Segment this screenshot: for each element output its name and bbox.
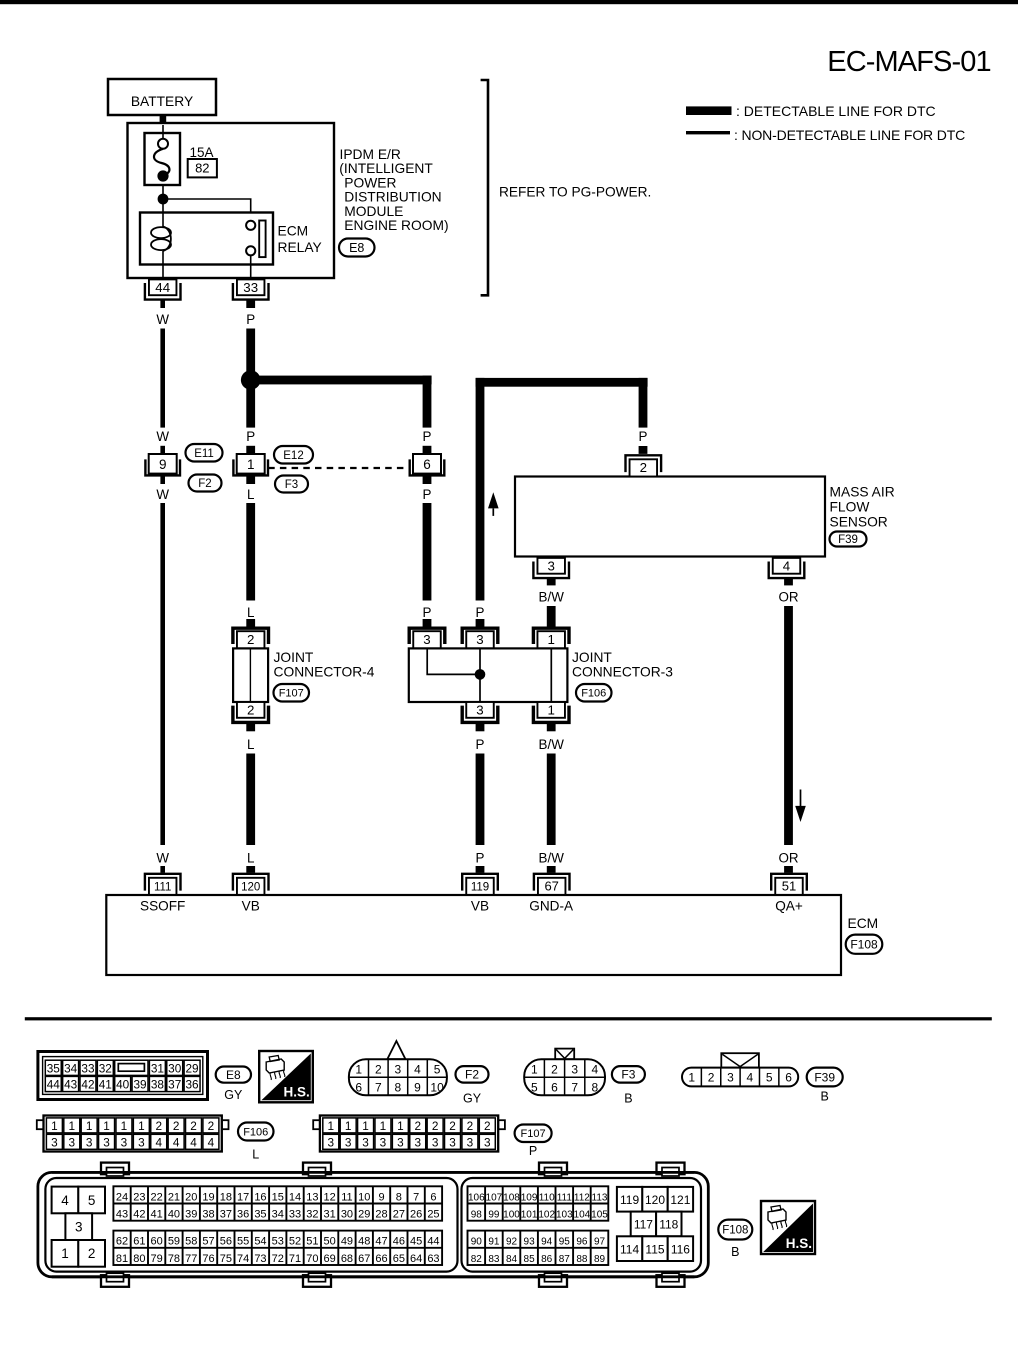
svg-text:33: 33: [81, 1061, 95, 1075]
svg-text:25: 25: [427, 1209, 439, 1221]
JC3 internal wire right: [550, 648, 552, 702]
svg-text:L: L: [247, 487, 254, 502]
svg-text:F3: F3: [621, 1068, 635, 1082]
arrow down beside OR wire: [795, 790, 806, 823]
svg-text:2: 2: [375, 1062, 382, 1076]
svg-text:106: 106: [468, 1192, 485, 1203]
svg-text:42: 42: [81, 1078, 94, 1092]
svg-text:32: 32: [306, 1209, 318, 1221]
svg-text:W: W: [156, 429, 169, 444]
connector ref F39 oval main: [830, 532, 867, 547]
svg-text:P: P: [423, 429, 432, 444]
label P under F107: [529, 1144, 537, 1158]
wire P junction to terminal 1: [246, 380, 255, 428]
svg-text:1: 1: [247, 457, 255, 472]
svg-text:53: 53: [272, 1236, 284, 1248]
svg-text:2: 2: [414, 1119, 421, 1133]
svg-text:112: 112: [574, 1192, 590, 1203]
relay coil: [151, 214, 171, 265]
svg-text:26: 26: [410, 1209, 422, 1221]
svg-text:3: 3: [75, 1220, 83, 1235]
connector ref F108 oval bottom: [718, 1220, 752, 1240]
svg-text:47: 47: [375, 1236, 387, 1248]
svg-text:3: 3: [51, 1136, 58, 1150]
svg-text:SSOFF: SSOFF: [140, 899, 185, 914]
junction node in IPDM: [158, 194, 169, 205]
svg-text:15: 15: [272, 1191, 284, 1203]
label GY under F2: [463, 1092, 482, 1106]
svg-text:2: 2: [173, 1119, 180, 1133]
label W below 44: [156, 312, 169, 327]
svg-text:4: 4: [746, 1071, 753, 1085]
svg-text:58: 58: [185, 1236, 197, 1248]
svg-text:82: 82: [195, 161, 209, 176]
label P below 33: [246, 312, 255, 327]
label W above ECM 111: [156, 851, 169, 866]
svg-text:5: 5: [88, 1193, 96, 1208]
stub above ECM 67: [547, 866, 556, 873]
svg-text:101: 101: [521, 1210, 538, 1221]
svg-text:F2: F2: [198, 478, 211, 490]
svg-text:: NON-DETECTABLE LINE FOR DTC: : NON-DETECTABLE LINE FOR DTC: [734, 127, 965, 143]
svg-text:VB: VB: [471, 899, 489, 914]
svg-text:MASS AIR: MASS AIR: [830, 485, 895, 500]
svg-text:104: 104: [574, 1210, 591, 1221]
svg-text:66: 66: [375, 1253, 387, 1265]
svg-text:1: 1: [86, 1119, 93, 1133]
svg-text:120: 120: [645, 1193, 665, 1207]
stub above terminal 1: [246, 446, 255, 454]
ECM terminal 119: [462, 874, 498, 895]
svg-text:3: 3: [397, 1136, 404, 1150]
svg-text:E8: E8: [349, 241, 364, 255]
fuse 15A symbol: [154, 139, 169, 182]
svg-text:65: 65: [393, 1253, 405, 1265]
svg-text:1: 1: [328, 1119, 335, 1133]
svg-text:5: 5: [531, 1080, 538, 1094]
svg-text:15A: 15A: [190, 145, 214, 160]
joint connector-3 box F106: [409, 648, 568, 702]
svg-text:23: 23: [133, 1191, 145, 1203]
ECM terminal 67: [534, 874, 570, 895]
svg-text:5: 5: [434, 1062, 441, 1076]
svg-text:F108: F108: [722, 1225, 748, 1237]
stub below 44: [160, 300, 165, 308]
svg-text:3: 3: [362, 1136, 369, 1150]
svg-text:40: 40: [116, 1078, 130, 1092]
svg-text:68: 68: [341, 1253, 353, 1265]
svg-text:3: 3: [345, 1136, 352, 1150]
wire junction to col C horizontal: [251, 376, 432, 385]
terminal 33: [233, 279, 269, 299]
connector ref F39 oval bottom: [807, 1068, 843, 1087]
svg-text:73: 73: [254, 1253, 266, 1265]
svg-text:JOINT: JOINT: [572, 650, 612, 665]
svg-text:34: 34: [272, 1209, 284, 1221]
svg-text:6: 6: [423, 457, 431, 472]
svg-text:121: 121: [670, 1193, 690, 1207]
svg-text:P: P: [246, 312, 255, 327]
svg-text:20: 20: [185, 1191, 197, 1203]
svg-text:78: 78: [168, 1253, 180, 1265]
svg-text:3: 3: [476, 703, 483, 718]
wire OR to ECM: [784, 606, 793, 845]
stub above terminal 6: [423, 446, 432, 454]
svg-text:1: 1: [547, 703, 554, 718]
svg-text:H.S.: H.S.: [284, 1084, 310, 1099]
svg-text:2: 2: [247, 632, 254, 647]
stub below terminal 9: [160, 476, 165, 484]
svg-text:2: 2: [484, 1119, 491, 1133]
svg-text:90: 90: [471, 1237, 483, 1248]
svg-text:55: 55: [237, 1236, 249, 1248]
JC3 internal wire mid: [479, 648, 481, 702]
JC3 top terminal 1 right: [533, 628, 569, 648]
stub above JC3 terminal 3 mid: [476, 619, 485, 627]
svg-text:4: 4: [592, 1062, 599, 1076]
svg-text:74: 74: [237, 1253, 249, 1265]
svg-text:70: 70: [306, 1253, 318, 1265]
terminal 4 MAFS: [769, 558, 805, 578]
label B under F108: [731, 1245, 739, 1259]
stub above ECM 120: [246, 866, 255, 873]
svg-text:16: 16: [254, 1191, 266, 1203]
ECM connector key block left: [52, 1187, 105, 1267]
wire coil to terminal 44: [162, 264, 164, 280]
svg-text:75: 75: [220, 1253, 232, 1265]
svg-text:22: 22: [151, 1191, 163, 1203]
svg-text:OR: OR: [778, 851, 798, 866]
svg-text:6: 6: [785, 1071, 792, 1085]
pin name GND-A: [529, 899, 574, 914]
connector ref F2 oval: [189, 475, 222, 492]
svg-text:95: 95: [559, 1237, 571, 1248]
svg-text:CONNECTOR-4: CONNECTOR-4: [274, 665, 375, 680]
svg-text:100: 100: [503, 1210, 520, 1221]
svg-text:61: 61: [133, 1236, 145, 1248]
label ECM RELAY: [278, 224, 322, 255]
svg-text:E12: E12: [283, 450, 303, 462]
svg-text:118: 118: [659, 1218, 678, 1232]
svg-text:33: 33: [243, 280, 258, 295]
svg-text:44: 44: [427, 1236, 439, 1248]
svg-text:94: 94: [541, 1237, 553, 1248]
stub above ECM 111: [160, 866, 165, 873]
fuse 15A holder box: [145, 133, 181, 185]
mass air flow sensor box F39: [515, 477, 825, 557]
svg-text:93: 93: [524, 1237, 536, 1248]
svg-text:L: L: [247, 737, 254, 752]
svg-text:34: 34: [64, 1061, 78, 1075]
connector face F107 pin grid: [313, 1116, 505, 1152]
svg-text:2: 2: [551, 1062, 558, 1076]
svg-text:REFER TO PG-POWER.: REFER TO PG-POWER.: [499, 185, 651, 200]
pin name SSOFF: [140, 899, 185, 914]
svg-text:14: 14: [289, 1191, 301, 1203]
stub below terminal 6: [423, 476, 432, 484]
label P below terminal 6: [423, 487, 432, 502]
wire P col to JC3: [423, 503, 432, 601]
svg-text:81: 81: [116, 1253, 128, 1265]
svg-text:108: 108: [503, 1192, 520, 1203]
arrow up beside col D: [488, 492, 499, 516]
svg-text:42: 42: [133, 1209, 145, 1221]
svg-text:E11: E11: [194, 448, 214, 460]
svg-text:F107: F107: [521, 1128, 546, 1140]
svg-text:P: P: [529, 1144, 537, 1158]
svg-text:POWER: POWER: [344, 175, 396, 190]
svg-text:38: 38: [202, 1209, 214, 1221]
svg-text:VB: VB: [242, 899, 260, 914]
terminal 2 MAFS: [626, 455, 662, 476]
fuse number 82 box: [188, 159, 217, 177]
svg-text:105: 105: [591, 1210, 608, 1221]
svg-text:1: 1: [121, 1119, 128, 1133]
svg-text:3: 3: [328, 1136, 335, 1150]
svg-text:1: 1: [69, 1119, 76, 1133]
connector ref E12 oval: [274, 446, 313, 464]
ECM terminal 51: [771, 874, 807, 895]
svg-text:B/W: B/W: [539, 737, 565, 752]
svg-text:18: 18: [220, 1191, 232, 1203]
JC3 top terminal 3 left: [409, 628, 445, 648]
svg-text:1: 1: [362, 1119, 369, 1133]
svg-text:F39: F39: [838, 534, 858, 546]
svg-text:4: 4: [173, 1136, 180, 1150]
svg-text:44: 44: [47, 1078, 61, 1092]
svg-text:116: 116: [671, 1242, 690, 1256]
svg-text:87: 87: [559, 1254, 571, 1265]
svg-text:3: 3: [449, 1136, 456, 1150]
svg-text:P: P: [423, 487, 432, 502]
svg-text:29: 29: [358, 1209, 370, 1221]
svg-text:36: 36: [186, 1078, 200, 1092]
wire MAFS feed horizontal: [476, 378, 648, 387]
label L below JC4: [247, 737, 254, 752]
svg-text:3: 3: [69, 1136, 76, 1150]
connector ref F2 oval bottom: [456, 1066, 489, 1083]
svg-text:ECM: ECM: [278, 224, 309, 239]
stub below 33: [246, 300, 255, 308]
svg-text:3: 3: [423, 632, 430, 647]
svg-text:F39: F39: [814, 1070, 835, 1084]
connector ref E11 oval: [186, 444, 223, 462]
svg-text:7: 7: [375, 1080, 382, 1094]
svg-text:111: 111: [557, 1192, 573, 1203]
svg-text:114: 114: [620, 1242, 639, 1256]
wire W col upper: [160, 329, 165, 428]
svg-text:29: 29: [186, 1061, 199, 1075]
connector ref F3 oval: [275, 476, 308, 493]
connector face F3 pin grid: [524, 1049, 605, 1096]
svg-text:4: 4: [190, 1136, 197, 1150]
svg-text:ECM: ECM: [848, 916, 879, 931]
svg-text:63: 63: [427, 1253, 439, 1265]
svg-text:13: 13: [306, 1191, 318, 1203]
connector face E8 pin grid: [38, 1052, 208, 1100]
svg-text:F108: F108: [850, 938, 878, 952]
label P above MAFS 2: [639, 429, 648, 444]
page top border bar: [0, 0, 1018, 4]
legend non-detectable line symbol: [686, 131, 730, 134]
svg-text:117: 117: [634, 1218, 653, 1232]
svg-text:62: 62: [116, 1236, 128, 1248]
svg-text:89: 89: [594, 1254, 606, 1265]
ECM connector pin grid left: [113, 1186, 442, 1265]
svg-text:31: 31: [151, 1061, 164, 1075]
svg-text:10: 10: [358, 1191, 370, 1203]
connector ref F3 oval bottom: [612, 1066, 645, 1083]
legend detectable line text: [736, 103, 936, 119]
svg-text:49: 49: [341, 1236, 353, 1248]
connector face F2 pin grid: [349, 1041, 447, 1095]
label P above terminal 6: [423, 429, 432, 444]
wire contact to terminal 33: [250, 255, 252, 280]
svg-text:OR: OR: [778, 590, 798, 605]
label P below JC3: [476, 737, 485, 752]
svg-text:8: 8: [396, 1191, 402, 1203]
stub above JC3 terminal 3 left: [423, 619, 432, 627]
stub below JC3 terminal 1: [547, 723, 556, 732]
svg-text:12: 12: [324, 1191, 336, 1203]
svg-text:36: 36: [237, 1209, 249, 1221]
relay contact circles: [246, 221, 255, 256]
terminal 3 MAFS: [533, 558, 569, 578]
svg-text:EC-MAFS-01: EC-MAFS-01: [827, 46, 990, 78]
svg-text:110: 110: [539, 1192, 555, 1203]
wire B/W to JC3: [547, 606, 556, 627]
svg-text:102: 102: [538, 1210, 555, 1221]
svg-text:JOINT: JOINT: [274, 650, 314, 665]
svg-text:IPDM E/R: IPDM E/R: [340, 147, 401, 162]
svg-text:91: 91: [488, 1237, 500, 1248]
svg-text:L: L: [247, 605, 254, 620]
harness view logo H.S. 1: [259, 1051, 313, 1102]
svg-text:76: 76: [202, 1253, 214, 1265]
JC3 internal node: [475, 669, 486, 680]
label L below terminal 1: [247, 487, 254, 502]
svg-text:33: 33: [289, 1209, 301, 1221]
svg-text:2: 2: [88, 1246, 96, 1261]
svg-text:3: 3: [432, 1136, 439, 1150]
svg-text:115: 115: [645, 1242, 664, 1256]
wire fuse to junction: [162, 185, 164, 214]
JC4 bottom terminal 2: [233, 702, 269, 722]
svg-text:54: 54: [254, 1236, 266, 1248]
svg-text:L: L: [252, 1148, 259, 1162]
svg-text:3: 3: [121, 1136, 128, 1150]
svg-text:83: 83: [488, 1254, 500, 1265]
ECM connector key block right: [617, 1187, 693, 1261]
label L above JC4: [247, 605, 254, 620]
svg-text:51: 51: [782, 878, 796, 893]
svg-text:F3: F3: [285, 479, 298, 491]
svg-text:F2: F2: [465, 1068, 479, 1082]
JC3 bottom terminal 1: [533, 702, 569, 722]
ECM terminal 111: [145, 874, 181, 895]
label GY under E8: [224, 1088, 243, 1102]
svg-text:2: 2: [640, 460, 647, 475]
svg-text:10: 10: [430, 1080, 444, 1094]
svg-text:ENGINE ROOM): ENGINE ROOM): [344, 218, 448, 233]
svg-text:3: 3: [380, 1136, 387, 1150]
joint connector-4 box F107: [233, 648, 268, 702]
wire junction to relay contact: [163, 199, 251, 221]
stub above terminal 9: [160, 446, 165, 454]
svg-text:109: 109: [521, 1192, 538, 1203]
svg-text:46: 46: [393, 1236, 405, 1248]
label L under F106: [252, 1148, 259, 1162]
label W above terminal 9: [156, 429, 169, 444]
label OR below MAFS 4: [778, 590, 798, 605]
svg-text:119: 119: [471, 881, 489, 893]
svg-text:: DETECTABLE LINE FOR DTC: : DETECTABLE LINE FOR DTC: [736, 103, 936, 119]
svg-text:84: 84: [506, 1254, 518, 1265]
svg-text:30: 30: [341, 1209, 353, 1221]
svg-text:P: P: [476, 605, 485, 620]
svg-text:1: 1: [51, 1119, 58, 1133]
legend non-detectable line text: [734, 127, 965, 143]
JC4 top terminal 2: [233, 628, 269, 648]
svg-text:F106: F106: [581, 688, 606, 700]
svg-text:GND-A: GND-A: [529, 899, 574, 914]
wire P JC3 to ECM: [476, 754, 485, 846]
svg-text:59: 59: [168, 1236, 180, 1248]
connector ref F107 oval bottom: [515, 1125, 552, 1143]
svg-text:B: B: [731, 1245, 739, 1259]
wire W col to ECM: [160, 503, 165, 845]
ECM terminal 120: [233, 874, 269, 895]
svg-text:17: 17: [237, 1191, 249, 1203]
svg-text:67: 67: [544, 878, 558, 893]
title EC-MAFS-01: [827, 46, 990, 78]
stub below MAFS 4: [784, 578, 793, 585]
svg-text:4: 4: [61, 1193, 69, 1208]
svg-text:2: 2: [190, 1119, 197, 1133]
svg-text:L: L: [247, 851, 254, 866]
svg-text:11: 11: [341, 1191, 352, 1203]
svg-text:1: 1: [380, 1119, 387, 1133]
svg-text:FLOW: FLOW: [830, 500, 870, 515]
svg-text:1: 1: [138, 1119, 145, 1133]
svg-text:80: 80: [133, 1253, 145, 1265]
label B/W below MAFS 3: [539, 590, 565, 605]
svg-text:(INTELLIGENT: (INTELLIGENT: [339, 161, 433, 176]
svg-text:2: 2: [247, 703, 254, 718]
label W below terminal 9: [156, 487, 169, 502]
stub below terminal 1: [246, 476, 255, 484]
svg-text:60: 60: [151, 1236, 163, 1248]
svg-text:6: 6: [355, 1080, 362, 1094]
svg-text:1: 1: [531, 1062, 538, 1076]
wire col MAFS2 drop: [639, 378, 648, 428]
svg-text:4: 4: [783, 559, 790, 574]
svg-text:3: 3: [476, 632, 483, 647]
svg-text:8: 8: [592, 1080, 599, 1094]
svg-text:86: 86: [541, 1254, 553, 1265]
svg-text:92: 92: [506, 1237, 518, 1248]
svg-text:3: 3: [103, 1136, 110, 1150]
svg-text:P: P: [476, 737, 485, 752]
svg-text:28: 28: [375, 1209, 387, 1221]
terminal 44: [145, 279, 181, 299]
svg-text:3: 3: [571, 1062, 578, 1076]
svg-text:3: 3: [547, 559, 554, 574]
svg-text:QA+: QA+: [775, 899, 803, 914]
svg-text:27: 27: [393, 1209, 405, 1221]
svg-text:41: 41: [151, 1209, 163, 1221]
battery B1: [108, 79, 216, 115]
